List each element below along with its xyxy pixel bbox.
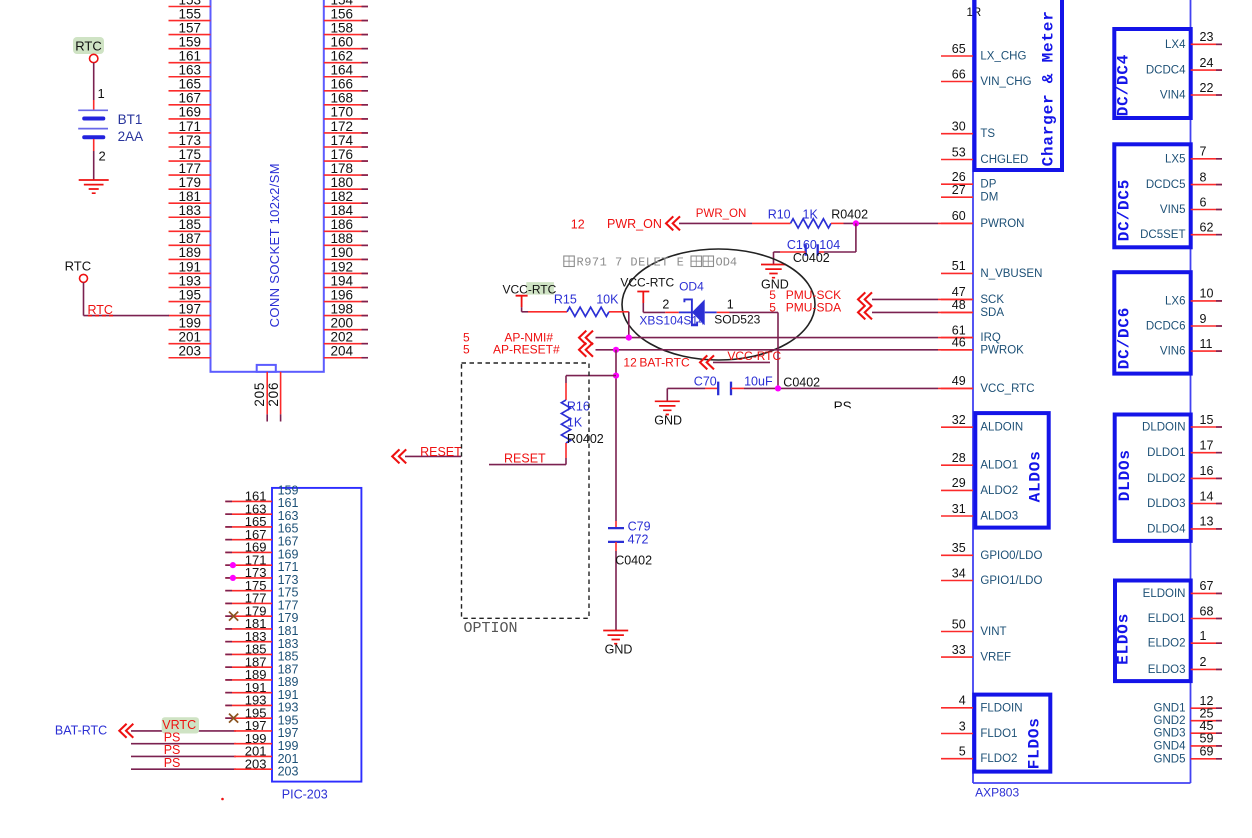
svg-text:TS: TS xyxy=(980,128,995,140)
svg-text:203: 203 xyxy=(278,765,299,779)
svg-text:VIN5: VIN5 xyxy=(1160,204,1186,216)
svg-text:2: 2 xyxy=(99,149,106,164)
svg-text:RESET: RESET xyxy=(504,452,546,466)
svg-text:68: 68 xyxy=(1200,604,1214,618)
svg-text:69: 69 xyxy=(1200,745,1214,759)
svg-text:24: 24 xyxy=(1200,56,1214,70)
svg-text:VCC-RTC: VCC-RTC xyxy=(620,275,674,289)
svg-text:28: 28 xyxy=(952,451,966,465)
svg-text:182: 182 xyxy=(331,189,354,204)
svg-text:163: 163 xyxy=(178,63,201,78)
svg-text:158: 158 xyxy=(331,20,354,35)
svg-text:GPIO1/LDO: GPIO1/LDO xyxy=(980,575,1042,587)
svg-text:67: 67 xyxy=(1200,579,1214,593)
svg-text:GND4: GND4 xyxy=(1154,740,1187,752)
svg-text:DM: DM xyxy=(980,192,998,204)
svg-text:VCC-RTC: VCC-RTC xyxy=(727,349,781,363)
svg-text:VINT: VINT xyxy=(980,626,1006,638)
svg-text:11: 11 xyxy=(1200,337,1213,351)
svg-text:BAT-RTC: BAT-RTC xyxy=(55,724,107,738)
svg-text:1: 1 xyxy=(727,297,734,311)
svg-text:GND3: GND3 xyxy=(1154,728,1186,740)
svg-text:RTC: RTC xyxy=(75,39,101,54)
svg-text:206: 206 xyxy=(266,382,281,407)
svg-text:26: 26 xyxy=(952,170,966,184)
svg-text:179: 179 xyxy=(178,175,201,190)
svg-text:14: 14 xyxy=(1200,489,1214,503)
svg-text:176: 176 xyxy=(331,147,354,162)
svg-text:ALDOs: ALDOs xyxy=(1027,450,1045,502)
svg-text:PMU-SDA: PMU-SDA xyxy=(786,301,841,315)
svg-text:Charger & Meter: Charger & Meter xyxy=(1040,10,1058,166)
svg-text:GPIO0/LDO: GPIO0/LDO xyxy=(980,550,1042,562)
svg-text:DCDC4: DCDC4 xyxy=(1146,65,1186,77)
svg-text:185: 185 xyxy=(178,217,201,232)
svg-text:16: 16 xyxy=(1200,464,1214,478)
svg-text:200: 200 xyxy=(331,315,354,330)
svg-text:ALDO3: ALDO3 xyxy=(980,511,1018,523)
svg-text:C0402: C0402 xyxy=(783,376,820,390)
svg-text:FLDOs: FLDOs xyxy=(1025,717,1043,769)
svg-text:LX6: LX6 xyxy=(1165,295,1185,307)
svg-text:22: 22 xyxy=(1200,81,1214,95)
svg-text:VIN6: VIN6 xyxy=(1160,346,1186,358)
svg-text:OPTION: OPTION xyxy=(464,620,518,637)
svg-text:155: 155 xyxy=(178,6,201,21)
svg-text:PWR_ON: PWR_ON xyxy=(607,217,662,231)
svg-text:201: 201 xyxy=(178,330,201,345)
svg-text:59: 59 xyxy=(1200,732,1214,746)
svg-text:161: 161 xyxy=(178,49,201,64)
svg-text:R971 7 DELET E: R971 7 DELET E xyxy=(577,256,685,270)
svg-text:C0402: C0402 xyxy=(615,554,652,568)
svg-text:PWRON: PWRON xyxy=(980,218,1024,230)
svg-text:48: 48 xyxy=(952,298,966,312)
svg-text:65: 65 xyxy=(952,42,966,56)
svg-text:SCK: SCK xyxy=(980,294,1004,306)
svg-text:VREF: VREF xyxy=(980,652,1011,664)
svg-text:173: 173 xyxy=(178,133,201,148)
svg-text:193: 193 xyxy=(178,273,201,288)
svg-text:167: 167 xyxy=(178,91,201,106)
svg-text:VCC-RTC: VCC-RTC xyxy=(503,282,557,296)
svg-text:VIN4: VIN4 xyxy=(1160,90,1186,102)
svg-text:30: 30 xyxy=(952,120,966,134)
svg-text:66: 66 xyxy=(952,67,966,81)
svg-text:196: 196 xyxy=(331,287,354,302)
svg-text:190: 190 xyxy=(331,245,354,260)
svg-text:189: 189 xyxy=(178,245,201,260)
svg-text:2: 2 xyxy=(1200,655,1207,669)
svg-text:ALDO2: ALDO2 xyxy=(980,485,1018,497)
svg-text:13: 13 xyxy=(1200,515,1214,529)
svg-text:DC/DC6: DC/DC6 xyxy=(1116,307,1134,369)
svg-text:180: 180 xyxy=(331,175,354,190)
svg-text:5: 5 xyxy=(463,342,470,356)
svg-text:AXP803: AXP803 xyxy=(975,786,1019,800)
svg-text:170: 170 xyxy=(331,105,354,120)
svg-text:169: 169 xyxy=(178,105,201,120)
svg-text:DLDO3: DLDO3 xyxy=(1147,498,1185,510)
svg-text:R16: R16 xyxy=(567,400,590,414)
svg-text:175: 175 xyxy=(178,147,201,162)
svg-text:PIC-203: PIC-203 xyxy=(282,788,328,802)
svg-text:7: 7 xyxy=(1200,145,1207,159)
svg-text:53: 53 xyxy=(952,145,966,159)
svg-text:197: 197 xyxy=(178,301,201,316)
svg-text:2AA: 2AA xyxy=(118,129,144,144)
svg-text:PS: PS xyxy=(164,756,181,770)
svg-text:5: 5 xyxy=(959,745,966,759)
svg-text:46: 46 xyxy=(952,336,966,350)
svg-text:1: 1 xyxy=(98,86,105,101)
svg-text:ELDO1: ELDO1 xyxy=(1148,613,1186,625)
svg-text:GND: GND xyxy=(654,414,682,428)
svg-text:49: 49 xyxy=(952,374,966,388)
svg-text:GND1: GND1 xyxy=(1154,703,1186,715)
svg-text:ALDOIN: ALDOIN xyxy=(980,422,1023,434)
svg-text:17: 17 xyxy=(1200,439,1214,453)
svg-text:187: 187 xyxy=(178,231,201,246)
svg-text:BT1: BT1 xyxy=(118,112,143,127)
svg-text:CHGLED: CHGLED xyxy=(980,154,1028,166)
svg-text:DCDC5: DCDC5 xyxy=(1146,179,1186,191)
svg-text:198: 198 xyxy=(331,301,354,316)
svg-text:1K: 1K xyxy=(567,416,583,430)
svg-text:DP: DP xyxy=(980,179,996,191)
svg-text:GND: GND xyxy=(605,643,633,657)
svg-text:10uF: 10uF xyxy=(744,375,773,389)
svg-text:199: 199 xyxy=(178,315,201,330)
svg-text:171: 171 xyxy=(178,119,201,134)
svg-text:FLDOIN: FLDOIN xyxy=(980,702,1022,714)
svg-text:IRQ: IRQ xyxy=(980,332,1001,344)
svg-text:195: 195 xyxy=(178,287,201,302)
svg-text:RESET: RESET xyxy=(420,445,462,459)
svg-text:R15: R15 xyxy=(554,293,577,307)
svg-text:157: 157 xyxy=(178,20,201,35)
svg-text:ELDOIN: ELDOIN xyxy=(1143,588,1186,600)
svg-text:C70: C70 xyxy=(694,375,717,389)
svg-text:12: 12 xyxy=(623,355,637,369)
svg-text:166: 166 xyxy=(331,77,354,92)
svg-text:165: 165 xyxy=(178,77,201,92)
svg-text:186: 186 xyxy=(331,217,354,232)
svg-text:32: 32 xyxy=(952,413,966,427)
svg-text:PWROK: PWROK xyxy=(980,344,1024,356)
svg-text:168: 168 xyxy=(331,91,354,106)
svg-text:184: 184 xyxy=(331,203,354,218)
svg-text:DC5SET: DC5SET xyxy=(1140,229,1185,241)
svg-text:R0402: R0402 xyxy=(567,432,604,446)
svg-text:8: 8 xyxy=(1200,170,1207,184)
svg-text:DC/DC5: DC/DC5 xyxy=(1116,179,1134,241)
svg-text:177: 177 xyxy=(178,161,201,176)
svg-text:C160: C160 xyxy=(787,238,817,252)
svg-text:181: 181 xyxy=(178,189,201,204)
svg-text:LX5: LX5 xyxy=(1165,153,1185,165)
svg-text:191: 191 xyxy=(178,259,201,274)
svg-text:ELDO3: ELDO3 xyxy=(1148,664,1186,676)
svg-text:SOD523: SOD523 xyxy=(714,313,760,327)
svg-text:50: 50 xyxy=(952,617,966,631)
svg-text:6: 6 xyxy=(1200,195,1207,209)
svg-text:VCC_RTC: VCC_RTC xyxy=(980,383,1034,395)
svg-text:62: 62 xyxy=(1200,221,1214,235)
svg-text:10K: 10K xyxy=(596,293,619,307)
svg-text:203: 203 xyxy=(178,344,201,359)
svg-text:LX4: LX4 xyxy=(1165,39,1186,51)
svg-text:160: 160 xyxy=(331,34,354,49)
svg-text:104: 104 xyxy=(819,238,840,252)
svg-text:178: 178 xyxy=(331,161,354,176)
svg-text:DCDC6: DCDC6 xyxy=(1146,321,1186,333)
svg-text:ELDOs: ELDOs xyxy=(1115,613,1133,665)
svg-text:R10: R10 xyxy=(768,208,791,222)
svg-text:DLDO2: DLDO2 xyxy=(1147,473,1185,485)
svg-text:SDA: SDA xyxy=(980,307,1004,319)
svg-text:9: 9 xyxy=(1200,312,1207,326)
svg-text:34: 34 xyxy=(952,566,966,580)
svg-text:C79: C79 xyxy=(628,520,651,534)
svg-text:156: 156 xyxy=(331,6,354,21)
svg-text:ALDO1: ALDO1 xyxy=(980,460,1018,472)
svg-text:472: 472 xyxy=(628,533,649,547)
svg-text:PWR_ON: PWR_ON xyxy=(696,208,746,220)
svg-text:OD4: OD4 xyxy=(679,280,704,294)
svg-text:1: 1 xyxy=(1200,629,1207,643)
svg-text:ELDO2: ELDO2 xyxy=(1148,638,1186,650)
svg-text:1K: 1K xyxy=(803,208,819,222)
svg-text:DLDO4: DLDO4 xyxy=(1147,523,1186,535)
svg-text:R0402: R0402 xyxy=(831,208,868,222)
svg-text:GND2: GND2 xyxy=(1154,715,1186,727)
svg-text:5: 5 xyxy=(769,301,776,315)
svg-text:183: 183 xyxy=(178,203,201,218)
svg-text:AP-RESET#: AP-RESET# xyxy=(493,342,560,356)
svg-text:DLDOIN: DLDOIN xyxy=(1142,422,1185,434)
svg-text:60: 60 xyxy=(952,209,966,223)
svg-text:51: 51 xyxy=(952,259,966,273)
svg-text:29: 29 xyxy=(952,476,966,490)
svg-text:10: 10 xyxy=(1200,287,1214,301)
svg-text:CONN SOCKET 102x2/SM: CONN SOCKET 102x2/SM xyxy=(267,163,282,327)
svg-text:164: 164 xyxy=(331,63,354,78)
svg-text:4: 4 xyxy=(959,694,966,708)
svg-text:VIN_CHG: VIN_CHG xyxy=(980,76,1031,88)
svg-text:204: 204 xyxy=(331,344,354,359)
svg-text:12: 12 xyxy=(571,218,585,232)
svg-text:194: 194 xyxy=(331,273,354,288)
svg-text:27: 27 xyxy=(952,183,966,197)
svg-text:BAT-RTC: BAT-RTC xyxy=(639,355,690,369)
svg-text:174: 174 xyxy=(331,133,354,148)
svg-text:OD4: OD4 xyxy=(716,256,738,270)
svg-text:DLDO1: DLDO1 xyxy=(1147,447,1185,459)
svg-text:DC/DC4: DC/DC4 xyxy=(1115,54,1133,116)
svg-text:202: 202 xyxy=(331,330,354,345)
svg-text:C0402: C0402 xyxy=(793,251,830,265)
svg-text:LX_CHG: LX_CHG xyxy=(980,51,1026,63)
svg-text:RTC: RTC xyxy=(65,259,91,274)
svg-text:192: 192 xyxy=(331,259,354,274)
svg-text:GND5: GND5 xyxy=(1154,753,1186,765)
svg-text:DLDOs: DLDOs xyxy=(1116,449,1134,501)
svg-text:35: 35 xyxy=(952,541,966,555)
svg-text:33: 33 xyxy=(952,643,966,657)
svg-text:172: 172 xyxy=(331,119,354,134)
svg-text:N_VBUSEN: N_VBUSEN xyxy=(980,268,1042,280)
svg-text:FLDO2: FLDO2 xyxy=(980,753,1017,765)
svg-text:159: 159 xyxy=(178,34,201,49)
svg-text:FLDO1: FLDO1 xyxy=(980,728,1017,740)
svg-text:15: 15 xyxy=(1200,413,1214,427)
svg-text:3: 3 xyxy=(959,719,966,733)
svg-text:47: 47 xyxy=(952,285,966,299)
svg-text:162: 162 xyxy=(331,49,354,64)
svg-text:23: 23 xyxy=(1200,30,1214,44)
svg-text:188: 188 xyxy=(331,231,354,246)
svg-text:XBS104S14: XBS104S14 xyxy=(639,314,705,328)
svg-text:31: 31 xyxy=(952,502,966,516)
svg-text:2: 2 xyxy=(662,297,669,311)
